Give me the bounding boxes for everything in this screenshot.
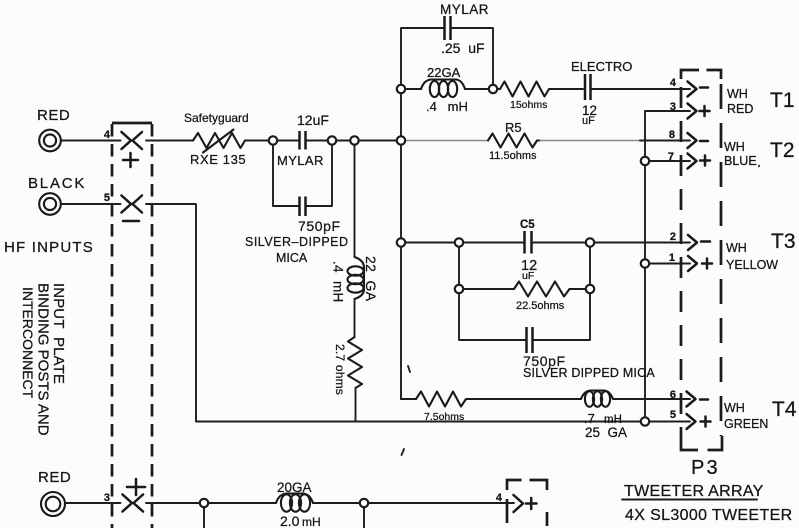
plus sign pin 3	[127, 479, 145, 495]
minus sign P3 pin 2	[701, 240, 710, 243]
label 22GA	[427, 65, 461, 80]
label WH YELLOW T3	[726, 241, 778, 272]
svg-text:RXE 135: RXE 135	[190, 152, 246, 167]
connector pin 4 mating contacts	[122, 132, 143, 149]
resistor R2 22.5ohms	[514, 282, 574, 297]
svg-text:INTERCONNECT: INTERCONNECT	[20, 287, 36, 399]
capacitor C3 .25uF MYLAR	[445, 16, 451, 40]
svg-text:750pF: 750pF	[298, 218, 341, 234]
svg-text:SILVER–DIPPED: SILVER–DIPPED	[245, 235, 349, 249]
pin number 4 input	[104, 129, 111, 141]
label 750pF	[298, 218, 341, 234]
capacitor C6 750pF SILVER DIPPED MICA	[527, 327, 533, 353]
title 4X SL3000 TWEETER	[625, 507, 793, 524]
wire node D to resistor R5	[405, 140, 488, 142]
svg-text:22.5ohms: 22.5ohms	[516, 300, 565, 312]
wire left side of RC network	[459, 247, 525, 340]
plus sign pin 4	[123, 153, 138, 167]
svg-text:MYLAR: MYLAR	[277, 153, 324, 168]
svg-text:12uF: 12uF	[297, 112, 329, 128]
minus sign P3 pin 6	[700, 398, 708, 401]
label 12 uF electro	[582, 103, 597, 127]
label Safetyguard	[184, 111, 249, 125]
svg-text:MYLAR: MYLAR	[440, 2, 489, 17]
connector P4 dashed box	[507, 480, 547, 526]
svg-text:WH: WH	[724, 140, 745, 154]
capacitor C1 12uF MYLAR	[300, 131, 306, 150]
connector P3 pin 4 contact	[688, 82, 697, 97]
capacitor C2 750pF branch loop	[273, 145, 332, 206]
plus sign P3 pin 7	[700, 156, 710, 166]
vertical label INTERCONNECT	[20, 287, 36, 399]
svg-text:4: 4	[670, 77, 677, 89]
label .25 uF	[441, 40, 485, 56]
title TWEETER ARRAY	[622, 483, 764, 500]
svg-text:5: 5	[104, 192, 110, 204]
svg-text:22GA: 22GA	[427, 65, 461, 80]
label RED	[37, 107, 70, 124]
svg-text:2.7 ohms: 2.7 ohms	[333, 344, 347, 395]
plus sign P3 pin 5	[701, 417, 711, 427]
label WH RED T1	[727, 87, 753, 116]
label WH BLUE T2	[724, 140, 760, 168]
label P3	[691, 457, 720, 479]
svg-text:4X SL3000 TWEETER: 4X SL3000 TWEETER	[625, 507, 793, 524]
label 12 uF C5	[521, 258, 537, 282]
svg-text:mH: mH	[302, 515, 321, 528]
inductor L4 20GA 2.0mH	[276, 494, 313, 512]
svg-text:WH: WH	[727, 87, 748, 101]
connector P3 pin 5 contact	[687, 414, 696, 429]
wire P3 pin 3 to vertical plus bus	[645, 111, 690, 422]
svg-text:T3: T3	[771, 230, 796, 253]
resistor R3 2.7ohms vertical	[348, 337, 362, 388]
label 20GA	[277, 480, 312, 495]
svg-text:BINDING POSTS AND: BINDING POSTS AND	[35, 283, 52, 436]
svg-text:.4 mH: .4 mH	[426, 99, 468, 114]
label SILVER-DIPPED	[245, 235, 349, 249]
node E junction	[489, 85, 497, 93]
capacitor C2 750pF SILVER-DIPPED MICA	[300, 197, 306, 217]
svg-text:WH: WH	[726, 241, 747, 255]
label 2.7ohms vertical	[333, 344, 347, 395]
svg-text:11.5ohms: 11.5ohms	[489, 150, 537, 162]
pin number 5 input	[104, 192, 110, 204]
wire junction H drop	[203, 508, 205, 528]
label T2	[770, 139, 795, 162]
label SILVER DIPPED MICA	[523, 366, 655, 380]
svg-text:4: 4	[496, 492, 503, 504]
node D2 junction	[397, 238, 405, 246]
wire C4 to P3 pin 4	[592, 88, 690, 90]
node F2 junction	[455, 285, 463, 293]
svg-text:7: 7	[668, 151, 674, 163]
svg-text:1: 1	[669, 252, 675, 264]
wire node A to capacitor C1	[277, 140, 298, 142]
inductor L2 22GA .4mH vertical	[348, 257, 365, 299]
label MYLAR top	[440, 2, 489, 17]
wire junction H to inductor L4	[208, 502, 276, 504]
label 2.0mH	[280, 513, 321, 528]
wire L3 to P3 pin 6	[613, 398, 690, 400]
connector P3 pin 3 contact	[688, 104, 697, 119]
wire capacitor C1 to node B	[307, 140, 328, 142]
label 750pF mica2	[523, 353, 566, 369]
wire node G to P3 pin 2	[594, 242, 690, 244]
node C junction	[350, 136, 358, 144]
svg-text:15ohms: 15ohms	[510, 99, 547, 111]
label 25 GA	[585, 425, 627, 440]
svg-text:20GA: 20GA	[277, 480, 312, 495]
resistor R1 15ohms	[500, 82, 552, 97]
wire L4 to junction I	[313, 502, 360, 504]
pin number 3 input	[104, 492, 110, 504]
svg-text:RED: RED	[38, 469, 71, 486]
wire BLACK return line to P3 pin 5	[146, 204, 690, 422]
wire C5 to node G	[533, 242, 586, 244]
label 15ohms	[510, 99, 547, 111]
svg-text:R5: R5	[505, 120, 522, 135]
svg-text:.7: .7	[584, 411, 595, 426]
wire node F to capacitor C5	[463, 242, 523, 244]
svg-text:T4: T4	[772, 398, 797, 421]
resistor R5 11.5ohms	[488, 134, 540, 148]
minus sign P3 pin 4	[700, 86, 708, 89]
wire T4 line corner to resistor R4	[401, 398, 416, 400]
node A1 junction	[397, 85, 405, 93]
vertical label INPUT PLATE	[50, 283, 67, 384]
svg-text:uF: uF	[522, 270, 534, 282]
capacitor C5 12uF	[525, 231, 532, 254]
node D junction	[397, 136, 405, 144]
connector pin 3 mating contacts	[123, 495, 144, 512]
binding post J1 RED	[39, 130, 61, 152]
wire lower rail pin3 to junction H	[146, 502, 200, 504]
wire top loop with .25uF cap	[401, 28, 493, 84]
pin number 2 P3	[670, 231, 676, 243]
binding post J3 RED (lower)	[41, 492, 65, 516]
node P5 junction	[641, 417, 649, 425]
wire L2 to resistor R3	[354, 299, 356, 337]
label ELECTRO	[571, 59, 632, 74]
wire safetyguard to node A	[245, 140, 269, 142]
label 22.5ohms	[516, 300, 565, 312]
wire R3 to return line	[355, 388, 357, 422]
svg-text:BLACK: BLACK	[28, 175, 86, 192]
svg-text:25 GA: 25 GA	[585, 425, 627, 440]
wire P3 pin 1 stub	[649, 263, 690, 265]
node H junction	[200, 499, 208, 507]
node F junction	[455, 238, 463, 246]
svg-text:P3: P3	[691, 457, 720, 479]
wire node F2 to resistor R2	[463, 288, 514, 290]
label R5	[505, 120, 522, 135]
svg-text:7.5ohms: 7.5ohms	[424, 411, 464, 423]
plus sign P3 pin 1	[702, 259, 712, 269]
svg-text:T2: T2	[770, 139, 795, 162]
pin number 8 P3	[669, 129, 675, 141]
wire inductor L1 to node E	[465, 88, 489, 90]
pin number 3 P3	[670, 101, 676, 113]
connector P3 pin 8 contact	[688, 133, 697, 148]
pin number 4 P4	[496, 492, 503, 504]
wire node E to resistor R1	[497, 88, 500, 90]
svg-text:TWEETER ARRAY: TWEETER ARRAY	[624, 483, 764, 500]
label T3	[771, 230, 796, 253]
label 7.5ohms	[424, 411, 464, 423]
svg-text:22 GA: 22 GA	[363, 256, 379, 302]
label MICA	[276, 251, 308, 265]
stray mark 1	[408, 366, 410, 372]
svg-text:uF: uF	[582, 115, 595, 127]
minus sign pin 5	[123, 220, 139, 223]
label WH GREEN T4	[724, 401, 768, 431]
input connector dashed box	[112, 123, 152, 528]
label RXE 135	[190, 152, 246, 167]
inductor L1 22GA .4mH	[421, 80, 465, 98]
label .4 mH	[426, 99, 468, 114]
label T1	[770, 89, 795, 112]
wire R4 to inductor L3	[470, 398, 581, 400]
wire node B to node C	[336, 140, 350, 142]
svg-text:.4 mH: .4 mH	[331, 261, 346, 303]
pin number 6 P3	[670, 389, 676, 401]
connector P3 dashed box	[681, 70, 722, 450]
svg-text:3: 3	[670, 101, 676, 113]
svg-text:.25 uF: .25 uF	[441, 40, 485, 56]
node I junction	[360, 499, 368, 507]
svg-text:6: 6	[670, 389, 676, 401]
wire pin4 to safetyguard	[146, 140, 193, 142]
minus sign P3 pin 8	[700, 140, 708, 143]
wire RED post to input connector	[61, 140, 121, 142]
svg-text:RED: RED	[727, 102, 753, 116]
svg-text:4: 4	[104, 129, 111, 141]
svg-text:8: 8	[669, 129, 675, 141]
svg-text:T1: T1	[770, 89, 795, 112]
svg-text:ELECTRO: ELECTRO	[571, 59, 632, 74]
label HF INPUTS	[4, 239, 94, 256]
svg-text:GREEN: GREEN	[724, 417, 768, 431]
plus sign P3 pin 3	[700, 106, 710, 116]
resistor R4 7.5ohms	[416, 392, 470, 407]
connector P3 pin 7 contact	[688, 154, 697, 169]
connector pin 5 mating contacts	[122, 196, 143, 213]
pin number 4 P3	[670, 77, 677, 89]
connector P3 pin 2 contact	[688, 235, 697, 250]
node G junction	[586, 238, 594, 246]
wire junction I to P4 pin 4	[368, 502, 514, 504]
svg-text:YELLOW: YELLOW	[726, 258, 778, 272]
wire node C to node D	[359, 140, 397, 142]
svg-text:BLUE: BLUE	[724, 154, 757, 168]
plus sign P4 pin 4	[526, 498, 537, 509]
wire main vertical bus x=401	[400, 84, 402, 399]
node A junction	[269, 136, 277, 144]
pin number 7 P3	[668, 151, 674, 163]
label C5	[520, 219, 535, 231]
label BLACK	[28, 175, 86, 192]
label 12uF	[297, 112, 329, 128]
wire right side of RC network	[534, 247, 590, 340]
vertical label BINDING POSTS AND	[35, 283, 52, 436]
node P7 junction	[641, 157, 649, 165]
label T4	[772, 398, 797, 421]
node P1 junction	[641, 259, 649, 267]
svg-text:5: 5	[670, 409, 676, 421]
svg-text:WH: WH	[724, 401, 745, 415]
capacitor C4 12uF ELECTRO	[585, 74, 591, 100]
wire lower RED post to input connector	[65, 502, 121, 504]
wire BLACK post to input connector	[62, 203, 121, 205]
node B junction	[328, 136, 336, 144]
wire P3 pin 7 stub	[645, 160, 690, 162]
svg-text:2.0: 2.0	[280, 513, 300, 528]
pin number 1 P3	[669, 252, 675, 264]
connector P3 pin 6 contact	[687, 392, 696, 407]
pin number 5 P3	[670, 409, 676, 421]
svg-text:C5: C5	[520, 219, 535, 231]
connector P3 pin 1 contact	[688, 256, 697, 271]
inductor L3 .7mH 25GA	[581, 391, 613, 407]
binding post J2 BLACK	[39, 193, 61, 215]
svg-text:3: 3	[104, 492, 110, 504]
svg-text:Safetyguard: Safetyguard	[184, 111, 249, 125]
wire node D to T3 line	[405, 242, 455, 244]
svg-text:HF INPUTS: HF INPUTS	[4, 239, 94, 256]
label 22 GA vertical	[363, 256, 379, 302]
wire R1 to capacitor C4	[552, 88, 583, 90]
label 11.5ohms	[489, 150, 537, 162]
wire R2 to node G2	[574, 288, 586, 290]
label .4 mH vertical	[331, 261, 346, 303]
wire shunt branch from node C	[354, 145, 356, 257]
svg-text:INPUT PLATE: INPUT PLATE	[50, 283, 67, 384]
label RED lower	[38, 469, 71, 486]
wire junction I drop	[363, 508, 365, 528]
label MYLAR	[277, 153, 324, 168]
connector P4 pin 4 contact	[514, 495, 524, 512]
label .7 mH	[584, 411, 622, 426]
node G2 junction	[586, 285, 594, 293]
svg-text:SILVER DIPPED MICA: SILVER DIPPED MICA	[523, 366, 655, 380]
wire node A1 to inductor L1	[405, 88, 421, 90]
svg-text:MICA: MICA	[276, 251, 308, 265]
svg-text:2: 2	[670, 231, 676, 243]
resistor Safetyguard RXE 135	[193, 130, 245, 153]
svg-text:RED: RED	[37, 107, 70, 124]
stray mark 2	[402, 449, 405, 455]
wire R5 to P3 pin 8	[540, 140, 690, 142]
